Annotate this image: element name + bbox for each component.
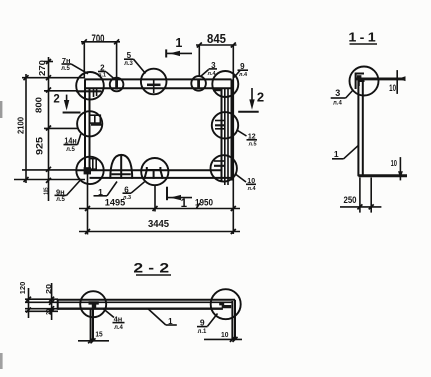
bottom dimension line 1495 / 1950 xyxy=(79,197,240,211)
scan smudge bottom left xyxy=(0,353,3,369)
section 2-2 left detail circle xyxy=(80,291,106,317)
svg-text:л.4: л.4 xyxy=(239,72,248,78)
svg-text:л.3: л.3 xyxy=(124,61,133,67)
svg-text:2100: 2100 xyxy=(16,117,25,134)
svg-text:2: 2 xyxy=(53,94,59,106)
section 2-2 bar top lines xyxy=(58,300,235,303)
section 2-2 right weld step xyxy=(219,303,231,309)
section 1-1 web xyxy=(358,77,362,176)
extension line y169.9 xyxy=(22,169,77,171)
section marker 1 top xyxy=(166,36,192,58)
callout 7н/л.5 xyxy=(61,56,88,74)
detail circle C9 bottom-right corner xyxy=(211,155,237,181)
dimension 2100 left outer xyxy=(16,74,28,183)
callout 10/л.4 xyxy=(236,175,256,193)
detail circle C8 bottom member xyxy=(141,158,168,185)
svg-text:20: 20 xyxy=(45,283,53,294)
extension line y77.7 xyxy=(22,77,85,79)
callout 9н/л.5 xyxy=(55,181,81,203)
right member xyxy=(222,79,232,185)
svg-text:2: 2 xyxy=(257,90,264,105)
svg-text:105: 105 xyxy=(43,187,50,194)
callout 3/л.4 section 1-1 xyxy=(331,88,353,107)
svg-text:л.1: л.1 xyxy=(198,329,207,335)
svg-text:1495: 1495 xyxy=(105,198,125,208)
extension below C8 xyxy=(154,186,156,212)
dim 120 section 2-2 xyxy=(18,282,31,318)
svg-text:845: 845 xyxy=(207,31,226,46)
svg-text:2-2: 2-2 xyxy=(133,261,174,276)
C3 inner stiffener xyxy=(147,80,161,93)
section 1-1 top flange xyxy=(356,77,405,80)
callout 1 section 2-2 xyxy=(148,309,177,326)
detail circle C6 left member xyxy=(77,111,102,136)
svg-text:700: 700 xyxy=(91,33,104,46)
detail circle C5 top-right corner xyxy=(212,71,238,97)
svg-text:1: 1 xyxy=(175,36,182,50)
scan smudge left edge xyxy=(0,101,2,118)
dim 10 section 2-2 right xyxy=(204,330,242,342)
extension line y91 with corner stub xyxy=(44,90,102,93)
svg-text:л.4: л.4 xyxy=(207,71,216,77)
svg-text:270: 270 xyxy=(38,60,47,76)
C1 inner plate xyxy=(94,89,97,98)
callout 5/л.3 xyxy=(124,51,146,74)
svg-text:л.5: л.5 xyxy=(61,66,70,72)
section marker 2 left xyxy=(53,94,80,113)
svg-text:20: 20 xyxy=(45,309,53,315)
section 2-2 bar bottom plate xyxy=(58,308,223,310)
callout 2/л.1 xyxy=(98,64,114,79)
dim 15 section 2-2 left xyxy=(78,331,109,343)
svg-text:л.4: л.4 xyxy=(114,325,123,331)
extension below C7 xyxy=(87,172,89,235)
C5 inner weld dash xyxy=(213,89,223,92)
section 2-2 extension lines left xyxy=(25,299,58,311)
svg-text:1-1: 1-1 xyxy=(348,30,379,44)
dimension 845 xyxy=(196,31,237,234)
detail circle C2 xyxy=(110,78,124,92)
svg-text:3445: 3445 xyxy=(148,219,170,230)
callout 3/л.4 plan xyxy=(201,61,218,77)
section 2-2 right leg xyxy=(232,300,235,340)
callout 14н/л.5 xyxy=(64,134,81,153)
svg-text:120: 120 xyxy=(18,282,27,295)
detail circle C3 xyxy=(141,69,167,95)
section marker 1 bottom xyxy=(167,187,192,210)
dim 20 20 section 2-2 xyxy=(45,283,54,320)
callout 1 section 1-1 xyxy=(332,146,358,159)
bell profile on bottom member xyxy=(110,155,132,179)
svg-text:1: 1 xyxy=(334,149,339,159)
section 1-1 title xyxy=(348,30,379,44)
dim 10 top flange xyxy=(389,70,405,94)
dim 10 bottom flange xyxy=(391,157,403,180)
C4 inner weld bar xyxy=(197,79,200,88)
callout 4н/л.4 section 2-2 xyxy=(103,309,125,332)
detail circle C10 right member xyxy=(212,112,238,138)
detail circle C4 xyxy=(191,76,206,91)
svg-text:л.5: л.5 xyxy=(248,142,256,148)
detail circle C1 top-left corner xyxy=(76,72,104,100)
left member xyxy=(85,79,90,170)
detail circle C7 bottom-left corner xyxy=(76,157,103,184)
C6 inner plate xyxy=(90,115,103,125)
svg-text:925: 925 xyxy=(35,136,45,155)
svg-text:3: 3 xyxy=(335,88,340,98)
bottom dimension line 3445 xyxy=(79,219,240,234)
top member xyxy=(85,79,232,88)
extension line y61.5 xyxy=(44,61,53,63)
callout 1 plan bottom xyxy=(94,182,118,197)
svg-text:10: 10 xyxy=(391,160,398,168)
svg-text:15: 15 xyxy=(95,331,102,338)
svg-text:л.4: л.4 xyxy=(247,186,256,192)
callout 6/л.3 xyxy=(123,182,145,201)
svg-text:л.4: л.4 xyxy=(333,101,342,107)
section 2-2 right detail circle xyxy=(211,289,241,319)
section 2-2 bar left end cap xyxy=(57,300,59,310)
callout 9/л.4 plan top right xyxy=(234,62,248,78)
svg-text:800: 800 xyxy=(34,97,43,113)
svg-text:10: 10 xyxy=(221,330,228,340)
svg-text:10: 10 xyxy=(389,83,396,93)
section 2-2 title xyxy=(133,261,174,276)
callout 9/л.1 section 2-2 xyxy=(197,314,218,336)
C2 inner weld bar xyxy=(115,80,118,90)
dimension 700 xyxy=(81,33,120,79)
section 1-1 bottom flange xyxy=(358,174,407,177)
section 1-1 corner step detail xyxy=(356,74,365,90)
C9 inner welds xyxy=(214,161,224,166)
C8 hat profile xyxy=(144,167,162,179)
section 2-2 left weld step xyxy=(89,301,99,308)
svg-text:250: 250 xyxy=(343,195,356,206)
extension line y179.5 xyxy=(14,179,85,181)
section 1-1 detail circle xyxy=(350,67,379,96)
svg-text:1950: 1950 xyxy=(195,197,213,208)
extension line y128.4 xyxy=(44,127,78,129)
bottom member xyxy=(77,170,232,178)
section marker 2 right xyxy=(238,88,264,112)
left dimension chain line xyxy=(46,57,51,201)
svg-text:л.1: л.1 xyxy=(98,72,106,78)
C10 inner welds xyxy=(215,121,225,129)
section 2-2 left leg xyxy=(91,309,93,342)
callout 12/л.5 xyxy=(237,130,258,148)
C7 inner plate xyxy=(84,159,97,175)
svg-text:л.5: л.5 xyxy=(56,197,65,203)
svg-text:л.5: л.5 xyxy=(66,147,75,153)
dim 250 section 1-1 xyxy=(340,178,381,213)
